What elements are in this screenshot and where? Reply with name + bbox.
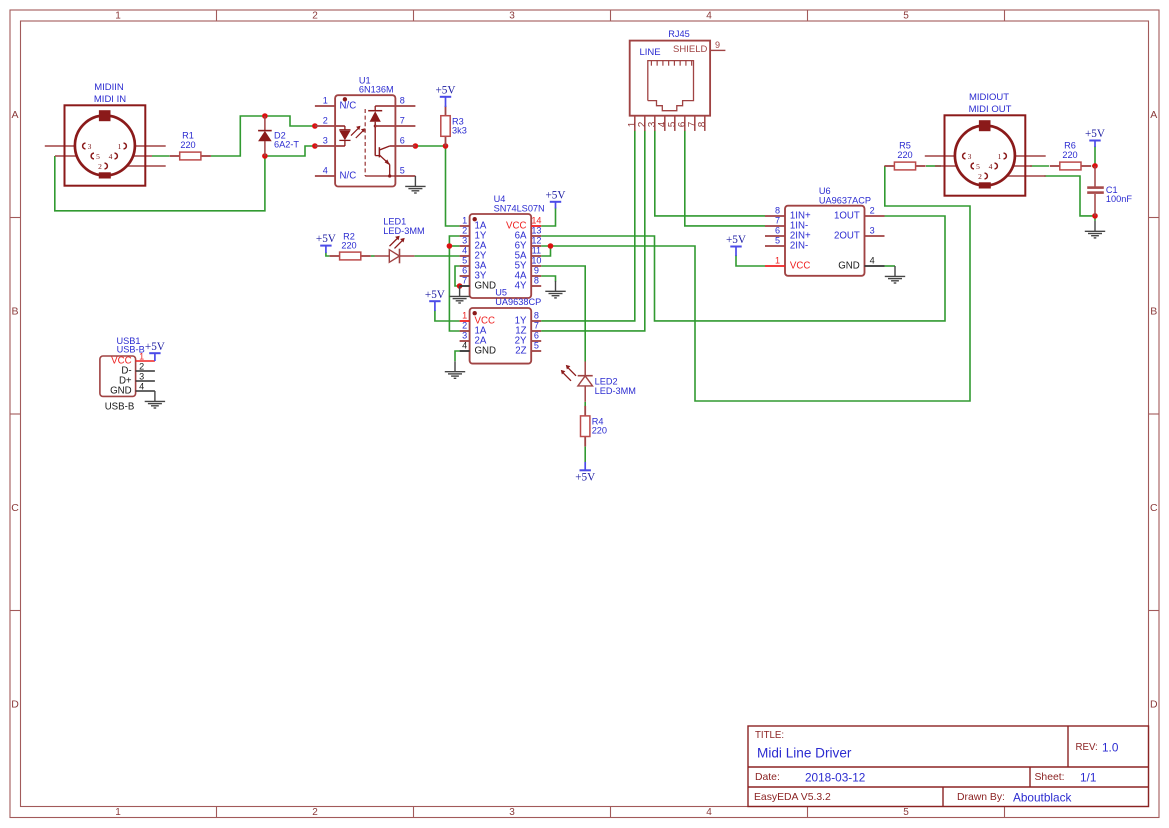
svg-text:GND: GND [475,346,497,357]
svg-text:13: 13 [531,226,541,236]
svg-text:2: 2 [462,226,467,236]
wire U4 pin9 4A to ground [541,276,555,282]
wire D2 cathode to U1 pin2 [265,116,315,126]
+5V power flag at R2 [316,233,336,253]
+5V power flag at R3 [436,84,456,107]
svg-text:1OUT: 1OUT [834,211,860,222]
svg-text:UA9638CP: UA9638CP [495,297,541,307]
wire U4 pin5 3A to GND pin7 [455,266,460,286]
resistor R1 [170,152,211,160]
svg-text:Midi Line Driver: Midi Line Driver [757,746,852,761]
wire RJ45 pin6 to U6 pin7 1IN- [685,131,765,226]
svg-text:1: 1 [118,142,122,151]
svg-text:MIDIOUT: MIDIOUT [969,92,1009,103]
wire R6 to junction [1092,165,1095,167]
svg-text:GND: GND [110,386,132,397]
svg-text:4: 4 [870,256,875,266]
svg-text:2: 2 [323,116,328,126]
svg-text:6: 6 [462,266,467,276]
node U4 pin3 junction [447,243,453,249]
svg-text:+5V: +5V [425,289,445,301]
svg-text:3: 3 [462,236,467,246]
svg-text:4: 4 [323,166,328,176]
U5 pin names [475,316,528,357]
wire D2 anode to U1 pin3 [265,146,315,156]
node U4 pin12 junction [548,243,554,249]
RJ45 pin numbers [627,40,720,127]
svg-text:220: 220 [592,426,607,436]
svg-text:5: 5 [96,152,100,161]
svg-text:7: 7 [462,276,467,286]
svg-text:+5V: +5V [575,472,595,484]
wire R2 to LED1 [371,255,375,257]
svg-text:2: 2 [139,362,144,372]
LED LED1 [375,236,415,264]
svg-text:10: 10 [531,256,541,266]
svg-text:2: 2 [870,206,875,216]
svg-text:LED-3MM: LED-3MM [383,226,424,236]
svg-text:6: 6 [400,136,405,146]
MIDIOUT pin numbers [968,152,1002,181]
svg-text:100nF: 100nF [1106,194,1132,204]
IC U5 UA9638CP [460,308,542,364]
svg-text:N/C: N/C [340,171,357,182]
svg-text:2: 2 [978,172,982,181]
MIDIIN pin numbers [88,142,122,171]
svg-text:C: C [11,502,19,514]
svg-text:4: 4 [139,382,144,392]
ground at U4 pin9 net [545,281,565,298]
svg-text:3: 3 [509,807,515,818]
svg-text:5: 5 [775,236,780,246]
svg-text:3: 3 [968,152,972,161]
USB1 pin numbers [139,352,144,392]
LED LED2 [561,362,593,402]
svg-text:7: 7 [775,216,780,226]
wire MIDIOUT pin4 to R6 [1030,165,1049,167]
ground at U4 pin7 [449,286,469,303]
svg-text:1: 1 [115,807,121,818]
wire +5V to U6 pin1 VCC [736,255,765,266]
connector RJ45 [630,41,726,131]
svg-text:Date:: Date: [755,772,780,783]
+5V power flag at U6 VCC [726,234,746,256]
svg-text:220: 220 [1062,150,1077,160]
svg-text:B: B [11,306,18,318]
wire U4 pin12 6Y to R5 [541,166,970,401]
USB1 pin names [110,356,132,397]
+5V power flag at U5 VCC [425,289,445,311]
svg-text:2018-03-12: 2018-03-12 [805,770,865,784]
RJ45 pin names [639,44,707,58]
+5V power flag at R4 (inverted) [575,462,595,484]
resistor R5 [884,162,925,170]
wire U1 pin6 to R3 [415,145,445,147]
svg-text:VCC: VCC [790,261,810,272]
svg-text:1: 1 [462,216,467,226]
wire RJ45 pin3 to U6 pin8 1IN+ [655,131,765,216]
ground at USB1 pin4 [145,391,165,408]
svg-text:4Y: 4Y [515,281,527,292]
svg-text:C: C [1150,502,1158,514]
wire R4 to +5V [584,447,586,463]
+5V power flag at U4 VCC [546,189,566,208]
wire LED2 to R4 [584,402,586,407]
ground at U6 pin4 [885,266,905,283]
svg-text:4: 4 [706,10,712,21]
svg-text:8: 8 [697,121,708,127]
svg-text:12: 12 [531,236,541,246]
wire R5 to MIDIOUT pin5 [926,165,941,167]
U1 pin numbers [323,96,405,176]
ground at U5 pin4 [445,361,465,378]
svg-text:SHIELD: SHIELD [673,44,707,55]
svg-text:6A2-T: 6A2-T [274,140,299,150]
wire MIDIOUT pin2 to C1 bottom [1044,176,1095,216]
svg-text:REV:: REV: [1076,742,1098,753]
frame column numbers top [115,10,909,21]
svg-text:6: 6 [534,331,539,341]
svg-text:2: 2 [98,162,102,171]
svg-text:5: 5 [534,341,539,351]
svg-text:4: 4 [462,341,467,351]
svg-text:220: 220 [897,150,912,160]
title block [748,726,1149,807]
svg-text:8: 8 [534,276,539,286]
svg-text:2Z: 2Z [515,346,526,357]
wire +5V to U5 pin1 VCC [435,310,460,321]
wire U5 pin4 GND to ground [455,351,460,361]
svg-text:TITLE:: TITLE: [755,730,784,741]
svg-text:14: 14 [531,216,541,226]
svg-text:MIDI OUT: MIDI OUT [969,104,1012,115]
svg-text:D: D [11,699,19,711]
node R6 / C1 / +5V junction [1092,163,1098,169]
svg-text:5: 5 [462,256,467,266]
svg-text:1: 1 [998,152,1002,161]
svg-text:A: A [11,109,18,121]
svg-text:3: 3 [139,372,144,382]
svg-text:1: 1 [115,10,121,21]
svg-text:RJ45: RJ45 [668,29,689,39]
resistor R2 [330,252,371,260]
svg-text:MIDI IN: MIDI IN [94,94,126,105]
resistor R3 [441,106,450,147]
U6 pin numbers [775,206,875,266]
svg-text:8: 8 [775,206,780,216]
svg-text:MIDIIN: MIDIIN [94,82,124,93]
node U1 pin6 junction [413,143,419,149]
U6 pin names [790,211,860,272]
diode D2 [258,116,272,156]
ground at C1 / MIDI OUT pin2 net [1085,221,1105,238]
svg-text:3: 3 [88,142,92,151]
svg-text:4: 4 [109,152,113,161]
svg-text:+5V: +5V [726,234,746,246]
svg-text:+5V: +5V [1085,128,1105,140]
node U1 pin2 junction [312,123,318,129]
svg-text:8: 8 [534,311,539,321]
IC U6 UA9637ACP [765,206,885,276]
MIDIIN name labels [94,82,126,105]
svg-text:4: 4 [462,246,467,256]
svg-text:A: A [1150,109,1157,121]
svg-text:5: 5 [976,162,980,171]
ground at U1 pin5 [405,176,425,193]
wire RJ45 pin1 to U5 pin8 1Y [541,131,635,321]
svg-text:USB-B: USB-B [105,401,135,412]
wire MIDIIN pin5 to D2 anode loop [55,156,265,211]
wire +5V to R6/C1 junction [1094,146,1096,166]
svg-text:7: 7 [400,116,405,126]
node U4 pin7 GND junction [457,283,463,289]
svg-text:2: 2 [312,10,318,21]
svg-text:5: 5 [400,166,405,176]
frame column numbers bottom [115,807,909,818]
wire U4 pin14 VCC to +5V [541,208,555,227]
+5V power flag at USB1 VCC [145,341,165,361]
resistor R4 [581,406,590,447]
svg-text:220: 220 [180,140,195,150]
svg-text:2OUT: 2OUT [834,231,860,242]
svg-text:2: 2 [312,807,318,818]
wire stub to U4 pin11 5A [541,246,550,256]
wire MIDIIN pin4 to R1 [152,155,170,157]
svg-text:11: 11 [532,246,541,256]
svg-text:1/1: 1/1 [1080,770,1096,784]
node D2 anode junction [262,153,268,159]
svg-text:5: 5 [903,10,909,21]
IC U4 SN74LS07N [460,214,542,298]
wire U4 pin10 5Y to LED2 [541,266,585,362]
title block labels [754,730,1098,803]
U4 pin names [475,221,528,292]
svg-text:8: 8 [400,96,405,106]
resistor R6 [1050,162,1091,170]
svg-text:4: 4 [706,807,712,818]
svg-text:220: 220 [341,240,356,250]
svg-text:7: 7 [534,321,539,331]
svg-text:6N136M: 6N136M [359,85,394,95]
node R3 output junction [443,143,449,149]
U1 pin names [340,101,357,182]
+5V power flag at R6/C1 [1085,128,1105,147]
svg-text:USB-B: USB-B [117,344,145,354]
connector USB1 USB-B [100,356,155,396]
svg-text:9: 9 [534,266,539,276]
svg-text:5: 5 [903,807,909,818]
svg-text:3: 3 [870,226,875,236]
wire R3 to U4 pin1 [446,146,460,226]
node D2 cathode junction [262,113,268,119]
wire LED1 to U4 pin4 2Y [414,255,459,257]
svg-text:1.0: 1.0 [1102,741,1119,755]
svg-text:1: 1 [775,256,780,266]
wire +5V to R2 [326,252,330,256]
wire stub to U4 pin3 2A [449,245,459,247]
node C1 / ground junction [1092,213,1098,219]
svg-text:3: 3 [509,10,515,21]
connector MIDIIN (MIDI IN) DIN-5 symbol [45,105,166,185]
svg-text:GND: GND [838,261,860,272]
optocoupler U1 6N136M [315,95,416,186]
svg-text:LED-3MM: LED-3MM [595,386,636,396]
wire U6 pin4 GND to ground [885,265,896,267]
svg-text:SN74LS07N: SN74LS07N [494,203,545,213]
svg-text:Drawn By:: Drawn By: [957,792,1005,803]
MIDIOUT name labels [969,92,1012,115]
svg-text:B: B [1150,306,1157,318]
svg-text:+5V: +5V [436,84,456,96]
svg-text:+5V: +5V [546,189,566,201]
wire RJ45 pin2 to U5 pin7 1Z [541,131,645,331]
U4 pin numbers [462,216,541,286]
wire U4 pin2 1Y to U5 pin2 1A [449,236,459,331]
svg-text:D: D [1150,699,1158,711]
svg-text:3: 3 [462,331,467,341]
connector MIDIOUT (MIDI OUT) DIN-5 symbol [925,115,1046,195]
node U1 pin3 junction [312,143,318,149]
svg-text:1: 1 [462,311,467,321]
svg-text:+5V: +5V [316,233,336,245]
svg-text:UA9637ACP: UA9637ACP [819,195,871,205]
svg-text:N/C: N/C [340,101,357,112]
title block values [757,741,1119,805]
frame row letters left [11,109,19,711]
svg-text:3k3: 3k3 [452,126,467,136]
wire C1 bottom to ground [1094,216,1096,221]
svg-text:EasyEDA V5.3.2: EasyEDA V5.3.2 [754,792,831,803]
svg-text:LINE: LINE [639,47,660,58]
svg-text:GND: GND [475,281,497,292]
svg-text:Sheet:: Sheet: [1035,772,1065,783]
svg-text:6: 6 [775,226,780,236]
svg-text:2IN-: 2IN- [790,241,808,252]
capacitor C1 [1087,166,1104,216]
svg-text:Aboutblack: Aboutblack [1013,790,1071,804]
svg-text:9: 9 [715,40,720,50]
svg-text:3: 3 [323,136,328,146]
frame row letters right [1150,109,1158,711]
svg-text:+5V: +5V [145,341,165,353]
svg-text:1: 1 [323,96,328,106]
svg-text:4: 4 [989,162,993,171]
U5 pin numbers [462,311,539,351]
wire R1 to D2 cathode [211,116,265,156]
svg-text:2: 2 [462,321,467,331]
wire U4 pin13 6A to U6 pin2 1OUT [541,216,945,321]
